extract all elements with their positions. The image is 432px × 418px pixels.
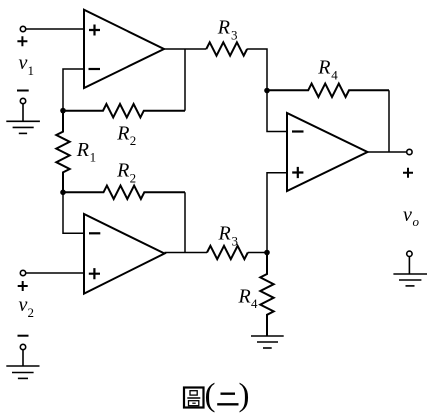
resistor R3 (bottom) [207, 246, 248, 259]
svg-text:v: v [403, 204, 412, 226]
svg-text:o: o [413, 214, 420, 229]
label R4 (bottom) [238, 285, 259, 311]
svg-text:1: 1 [28, 63, 35, 78]
wire v1 to U1 + input [26, 28, 84, 30]
svg-text:2: 2 [28, 305, 35, 320]
resistor R1 [56, 111, 69, 193]
wire node B to U2 - input [63, 192, 84, 233]
svg-text:3: 3 [232, 234, 239, 249]
op-amp U3 [287, 113, 368, 191]
resistor R2 (top feedback) [63, 104, 185, 117]
terminal v2 [20, 270, 25, 275]
svg-text:R: R [116, 122, 129, 144]
label R2 (bottom) [116, 160, 136, 186]
ground G2 (v2 reference) [6, 344, 39, 378]
wire U1 output [164, 48, 206, 50]
node C [264, 88, 270, 94]
label vo [403, 204, 420, 229]
op-amp U1 [84, 10, 164, 88]
ground G4 (below R4) [251, 336, 284, 348]
node D [264, 250, 270, 256]
minus sign v1 [17, 90, 29, 92]
wire R3 top to node C [247, 49, 267, 91]
wire node C to U3 - input [267, 91, 287, 132]
ground G1 (v1 reference) [6, 98, 40, 133]
resistor R2 (bottom feedback) [63, 186, 185, 199]
label v2 [19, 294, 35, 320]
wire U2 output [165, 252, 208, 254]
wire U3 + input to node D [267, 173, 287, 253]
svg-text:R: R [217, 17, 230, 39]
resistor R4 (bottom) [260, 253, 273, 337]
svg-text:4: 4 [331, 67, 338, 82]
label R2 (top) [116, 122, 136, 148]
plus sign v1 [17, 36, 27, 46]
wire U1 - input to node A [63, 69, 84, 111]
svg-text:(: ( [205, 378, 216, 414]
svg-text:R: R [317, 57, 330, 79]
label v1 [19, 52, 35, 78]
svg-text:3: 3 [231, 28, 238, 43]
node B [60, 190, 66, 196]
svg-text:R: R [76, 139, 89, 161]
resistor R4 (top feedback) [267, 84, 389, 97]
caption 圖(二) [184, 378, 250, 414]
wire v2 to U2 + input [26, 272, 84, 274]
svg-text:R: R [116, 160, 129, 182]
minus sign v2 [18, 335, 29, 337]
node A [60, 108, 66, 114]
svg-text:2: 2 [130, 170, 137, 185]
svg-text:): ) [239, 378, 250, 414]
wire R2 bottom feedback to U2 output [184, 192, 186, 252]
svg-text:v: v [19, 294, 28, 316]
op-amp U2 [84, 214, 165, 294]
svg-text:v: v [19, 52, 28, 74]
label R1 [76, 139, 96, 165]
svg-text:2: 2 [130, 133, 137, 148]
label R4 (top) [317, 57, 338, 83]
plus sign v2 [18, 281, 28, 291]
ground G3 (vo reference) [393, 251, 427, 286]
plus sign vo [403, 168, 413, 178]
svg-text:R: R [238, 285, 251, 307]
svg-text:R: R [218, 223, 231, 245]
wire U3 output to terminal [368, 151, 407, 153]
label R3 (top) [217, 17, 238, 43]
terminal vo [407, 149, 412, 154]
svg-text:1: 1 [90, 150, 97, 165]
svg-text:4: 4 [251, 296, 258, 311]
wire R2 top feedback to U1 output [184, 49, 186, 111]
resistor R3 (top) [206, 42, 247, 55]
terminal v1 [20, 26, 25, 31]
wire R3 bottom to node D [248, 252, 267, 254]
label R3 (bottom) [218, 223, 239, 249]
wire R4 top feedback to U3 output [388, 90, 390, 152]
